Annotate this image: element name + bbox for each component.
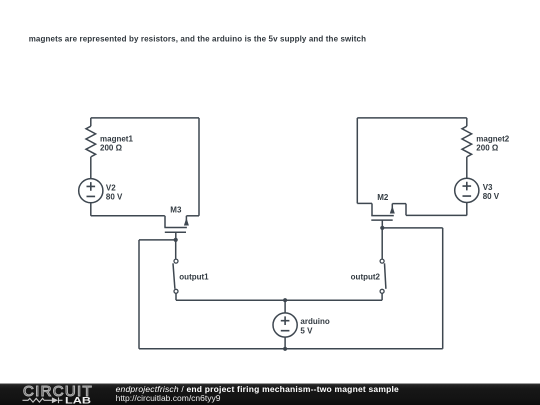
svg-text:magnets are represented by res: magnets are represented by resistors, an… bbox=[29, 35, 366, 44]
wire top left loop bbox=[91, 117, 199, 119]
wire arduino top lead bbox=[284, 300, 286, 313]
wire M3 drain to loop bbox=[186, 215, 199, 217]
switch output1 bbox=[173, 259, 178, 293]
footer bar bbox=[0, 384, 540, 405]
svg-text:arduino: arduino bbox=[300, 317, 329, 326]
wire M2 source step bbox=[392, 204, 467, 216]
voltage source arduino bbox=[273, 313, 297, 337]
wire bottom of bottom loop bbox=[139, 348, 443, 350]
svg-text:M3: M3 bbox=[170, 205, 182, 214]
wire right side of bottom loop bbox=[442, 228, 444, 349]
wire below output1 bbox=[175, 294, 177, 301]
svg-text:5 V: 5 V bbox=[300, 326, 313, 335]
svg-text:200 Ω: 200 Ω bbox=[476, 143, 499, 152]
node arduino top bbox=[283, 298, 287, 302]
mosfet M2 bbox=[371, 203, 395, 228]
node M3 gate junction bbox=[174, 238, 178, 242]
resistor magnet1 bbox=[86, 126, 96, 157]
wire arduino bottom lead bbox=[284, 337, 286, 349]
svg-text:magnet2: magnet2 bbox=[476, 134, 509, 143]
wire gate junction left bbox=[139, 239, 176, 241]
wire resistor2 to V3 bbox=[466, 157, 468, 178]
wire resistor to V2 bbox=[90, 157, 92, 179]
voltage source V3 bbox=[455, 178, 479, 202]
svg-text:http://circuitlab.com/cn6tyy9: http://circuitlab.com/cn6tyy9 bbox=[116, 393, 221, 403]
svg-text:magnet1: magnet1 bbox=[100, 134, 133, 143]
mosfet M3 bbox=[164, 216, 189, 240]
node arduino bottom bbox=[283, 347, 287, 351]
svg-text:output2: output2 bbox=[351, 273, 381, 282]
wire left side of bottom loop bbox=[138, 240, 140, 349]
wire below output2 bbox=[381, 294, 383, 301]
switch output2 bbox=[380, 259, 386, 293]
node M2 gate junction bbox=[380, 226, 384, 230]
svg-text:V3: V3 bbox=[483, 183, 493, 192]
svg-text:LAB: LAB bbox=[65, 395, 92, 405]
voltage source V2 bbox=[79, 179, 103, 203]
svg-text:output1: output1 bbox=[179, 273, 209, 282]
wire M2 drain step bbox=[357, 202, 372, 204]
svg-text:80 V: 80 V bbox=[106, 192, 123, 201]
wire top of right loop bbox=[357, 117, 467, 119]
wire left loop upper-left bbox=[90, 118, 92, 126]
svg-text:200 Ω: 200 Ω bbox=[100, 143, 123, 152]
logo resistor diode symbol bbox=[23, 397, 63, 403]
wire right side of left loop bbox=[198, 118, 200, 216]
wire V3 to bottom bbox=[466, 203, 468, 216]
resistor magnet2 bbox=[462, 126, 472, 157]
wire junction to switch bbox=[175, 240, 177, 259]
svg-text:M2: M2 bbox=[377, 193, 389, 202]
wire gate junction right bbox=[382, 227, 442, 229]
wire switches to arduino bbox=[176, 299, 382, 301]
svg-text:V2: V2 bbox=[106, 183, 116, 192]
wire right loop upper-right bbox=[466, 118, 468, 126]
wire bottom of left loop bbox=[91, 215, 165, 217]
svg-text:80 V: 80 V bbox=[483, 192, 500, 201]
wire V2 to bottom bbox=[90, 203, 92, 216]
wire output2 to gate junction bbox=[381, 228, 383, 259]
wire left side of right loop bbox=[356, 118, 358, 203]
